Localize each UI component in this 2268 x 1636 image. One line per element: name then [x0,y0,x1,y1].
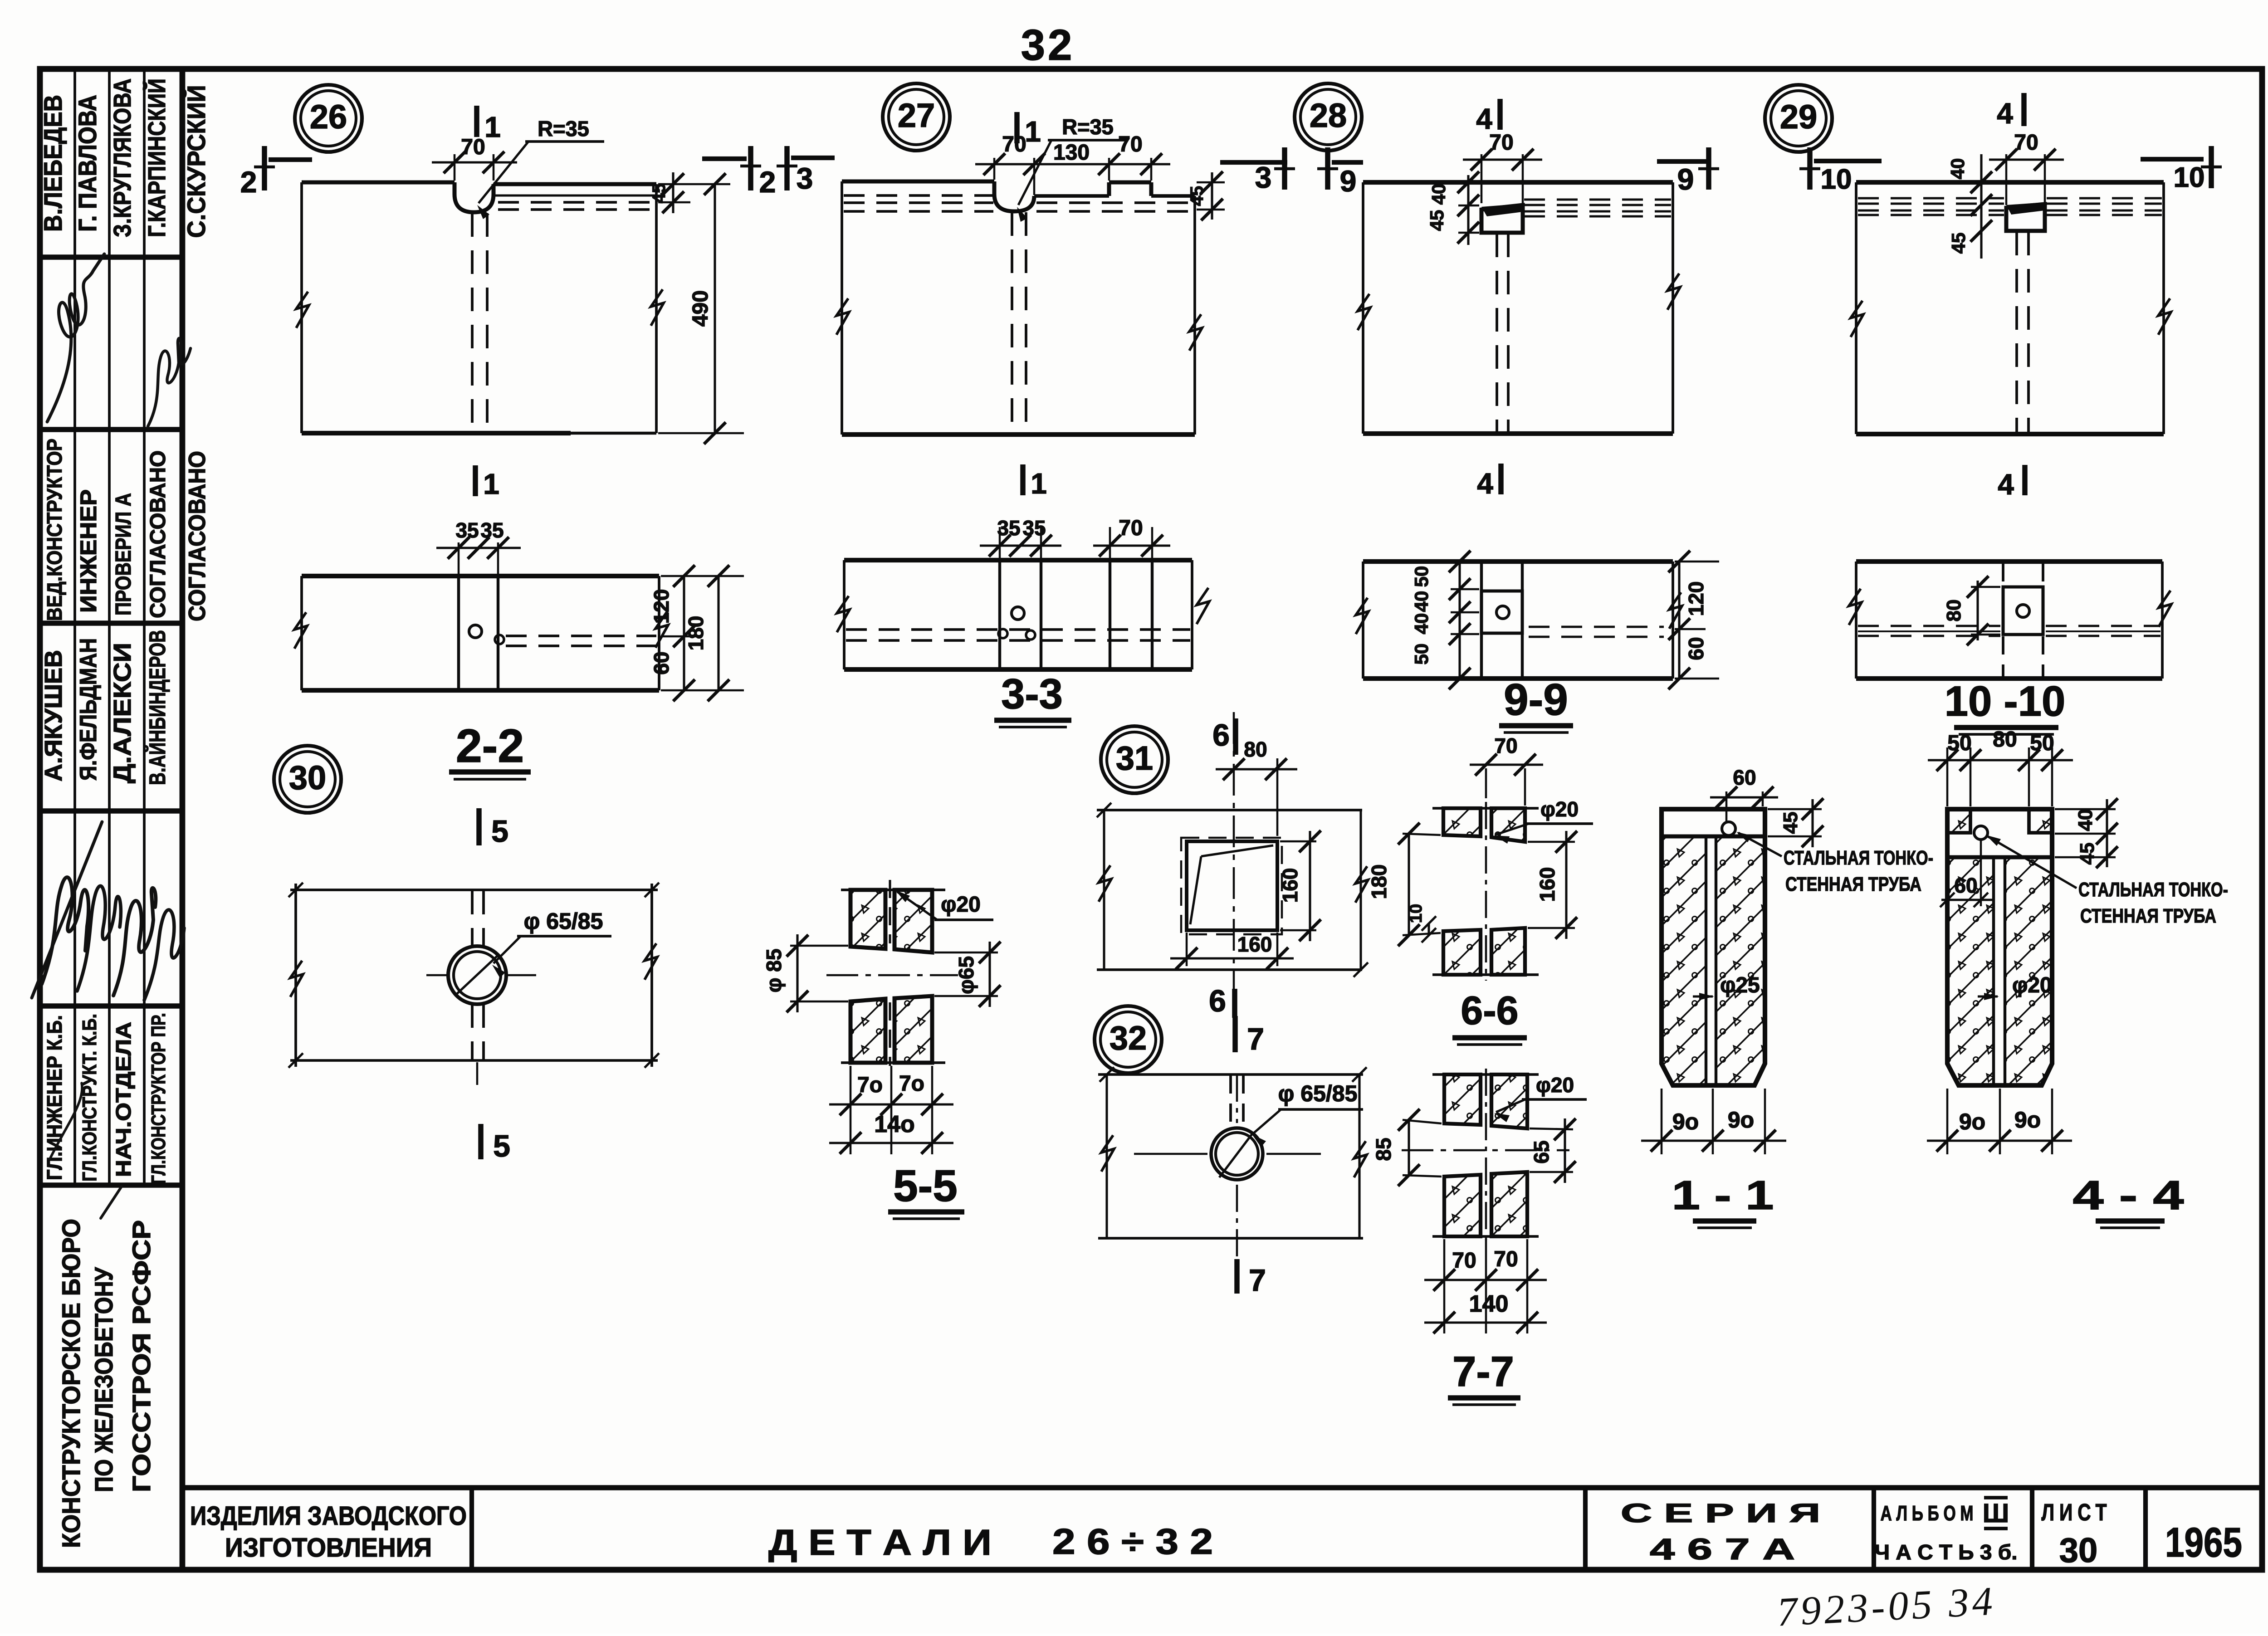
svg-text:Я.ФЕЛЬДМАН: Я.ФЕЛЬДМАН [75,638,102,781]
svg-text:5-5: 5-5 [893,1161,958,1211]
svg-text:120: 120 [650,589,673,624]
svg-text:10: 10 [1821,164,1852,195]
svg-text:4: 4 [1477,467,1493,500]
svg-text:R=35: R=35 [1062,115,1114,139]
svg-text:З.КРУГЛЯКОВА: З.КРУГЛЯКОВА [109,78,136,237]
svg-text:10: 10 [1407,904,1426,923]
svg-text:НАЧ.ОТДЕЛА: НАЧ.ОТДЕЛА [112,1022,135,1177]
svg-text:ПО ЖЕЛЕЗОБЕТОНУ: ПО ЖЕЛЕЗОБЕТОНУ [89,1267,118,1492]
svg-text:Ч А С Т Ь 3 б.: Ч А С Т Ь 3 б. [1875,1540,2018,1564]
svg-text:1: 1 [1031,467,1047,500]
svg-text:СТАЛЬНАЯ ТОНКО-: СТАЛЬНАЯ ТОНКО- [2078,879,2228,901]
svg-text:1965: 1965 [2165,1519,2242,1566]
svg-text:140: 140 [1469,1291,1509,1317]
svg-text:40: 40 [1947,158,1968,180]
svg-text:9o: 9o [1672,1109,1699,1134]
svg-text:40: 40 [1428,184,1449,205]
svg-text:СТЕННАЯ ТРУБА: СТЕННАЯ ТРУБА [2080,905,2216,927]
svg-text:2: 2 [759,165,776,199]
svg-text:СТАЛЬНАЯ ТОНКО-: СТАЛЬНАЯ ТОНКО- [1784,847,1933,869]
svg-text:9o: 9o [1728,1107,1754,1133]
svg-text:СОГЛАСОВАНО: СОГЛАСОВАНО [146,450,170,618]
svg-text:160: 160 [1278,868,1302,903]
svg-text:50: 50 [1411,644,1432,665]
svg-text:2: 2 [240,165,257,199]
svg-text:35: 35 [480,518,503,542]
svg-text:С Е Р И Я: С Е Р И Я [1621,1499,1820,1528]
svg-text:31: 31 [1116,739,1153,777]
svg-text:35: 35 [1022,516,1046,540]
svg-text:7o: 7o [899,1072,924,1096]
svg-text:29: 29 [1780,98,1817,136]
svg-text:1: 1 [484,111,501,143]
svg-text:В.АЙНБИНДЕРОВ: В.АЙНБИНДЕРОВ [144,630,170,785]
svg-text:32: 32 [1110,1019,1147,1057]
svg-text:45: 45 [1948,233,1969,254]
svg-text:1: 1 [483,468,499,500]
svg-text:6-6: 6-6 [1461,988,1518,1033]
svg-text:70: 70 [1494,734,1517,757]
svg-text:130: 130 [1053,141,1090,165]
svg-text:ИЗГОТОВЛЕНИЯ: ИЗГОТОВЛЕНИЯ [225,1533,432,1563]
svg-text:3: 3 [797,161,813,195]
svg-text:С.СКУРСКИЙ: С.СКУРСКИЙ [182,85,210,238]
svg-text:80: 80 [1943,600,1965,622]
svg-text:ВЕД.КОНСТРУКТОР: ВЕД.КОНСТРУКТОР [43,439,66,621]
svg-text:50: 50 [1411,566,1432,587]
svg-text:85: 85 [1372,1138,1395,1161]
svg-text:СТЕННАЯ ТРУБА: СТЕННАЯ ТРУБА [1785,873,1921,895]
svg-text:10: 10 [2174,162,2205,193]
svg-text:3: 3 [1255,161,1272,194]
svg-text:30: 30 [289,759,326,796]
svg-text:180: 180 [1367,864,1391,899]
svg-text:7-7: 7-7 [1452,1348,1514,1395]
svg-text:4: 4 [1998,468,2014,501]
svg-text:45: 45 [2076,843,2098,865]
svg-text:50: 50 [2030,731,2054,755]
svg-text:В.ЛЕБЕДЕВ: В.ЛЕБЕДЕВ [39,95,67,232]
svg-text:70: 70 [1452,1249,1476,1273]
svg-text:6: 6 [1209,984,1226,1018]
svg-text:60: 60 [650,651,673,674]
svg-text:80: 80 [1244,737,1267,761]
svg-text:φ20: φ20 [1540,797,1579,821]
svg-text:490: 490 [689,290,713,327]
svg-text:40: 40 [2074,809,2097,831]
svg-text:70: 70 [1489,131,1513,155]
svg-text:160: 160 [1535,867,1559,902]
svg-text:φ20: φ20 [1536,1073,1574,1097]
svg-text:ИНЖЕНЕР: ИНЖЕНЕР [76,489,101,613]
svg-text:Д Е Т А Л И: Д Е Т А Л И [768,1522,992,1563]
svg-text:Г. ПАВЛОВА: Г. ПАВЛОВА [73,95,102,232]
svg-text:50: 50 [1947,731,1971,755]
svg-text:φ25: φ25 [1720,973,1760,997]
svg-text:ГЛ.КОНСТРУКТОР ПР.: ГЛ.КОНСТРУКТОР ПР. [147,1013,170,1184]
svg-text:КОНСТРУКТОРСКОЕ БЮРО: КОНСТРУКТОРСКОЕ БЮРО [57,1219,85,1548]
svg-text:5: 5 [493,1129,510,1163]
svg-text:φ 85: φ 85 [762,949,786,993]
svg-text:4 - 4: 4 - 4 [2073,1173,2184,1218]
svg-text:4 6 7 А: 4 6 7 А [1650,1532,1795,1566]
svg-text:35: 35 [455,518,479,542]
svg-text:14o: 14o [874,1111,915,1138]
svg-text:ЛИСТ: ЛИСТ [2042,1499,2112,1526]
svg-text:А Л Ь Б О М: А Л Ь Б О М [1881,1501,1974,1525]
svg-text:45: 45 [1187,186,1207,206]
svg-text:60: 60 [1733,766,1756,789]
svg-text:30: 30 [2059,1531,2098,1570]
svg-text:φ20: φ20 [2012,973,2052,997]
svg-text:1: 1 [1025,115,1041,148]
svg-text:27: 27 [898,97,935,134]
svg-text:ИЗДЕЛИЯ ЗАВОДСКОГО: ИЗДЕЛИЯ ЗАВОДСКОГО [190,1501,467,1531]
svg-text:СОГЛАСОВАНО: СОГЛАСОВАНО [184,451,210,621]
svg-text:9: 9 [1340,164,1357,198]
svg-text:45: 45 [1779,812,1802,834]
svg-text:9o: 9o [1959,1109,1985,1134]
svg-text:45: 45 [1426,210,1447,231]
svg-text:70: 70 [2014,131,2038,155]
svg-text:65: 65 [1530,1140,1553,1163]
svg-text:160: 160 [1237,933,1272,956]
svg-text:2-2: 2-2 [456,720,524,772]
svg-text:40: 40 [1411,591,1432,612]
svg-text:70: 70 [461,135,485,159]
svg-text:7: 7 [1249,1263,1266,1298]
svg-text:4: 4 [1997,97,2013,130]
svg-text:40: 40 [1411,613,1432,635]
svg-text:7o: 7o [857,1073,883,1097]
svg-text:3-3: 3-3 [1001,670,1063,718]
svg-text:φ 65/85: φ 65/85 [1278,1081,1358,1106]
svg-text:2 6 ÷ 3 2: 2 6 ÷ 3 2 [1052,1521,1213,1562]
svg-text:Д.АЛЕКСИ: Д.АЛЕКСИ [109,643,136,783]
svg-text:9: 9 [1677,162,1694,196]
svg-text:28: 28 [1310,97,1347,134]
svg-text:Ш: Ш [1983,1499,2009,1528]
svg-text:φ 65/85: φ 65/85 [524,908,603,934]
svg-text:35: 35 [997,516,1020,540]
svg-text:45: 45 [649,183,669,204]
svg-text:А.ЯКУШЕВ: А.ЯКУШЕВ [40,650,67,781]
svg-text:4: 4 [1476,103,1492,135]
svg-text:32: 32 [1021,21,1075,69]
svg-text:Г.КАРПИНСКИЙ: Г.КАРПИНСКИЙ [143,78,171,237]
svg-text:120: 120 [1684,581,1708,616]
svg-text:10 -10: 10 -10 [1945,677,2066,725]
svg-text:26: 26 [310,98,347,136]
svg-text:70: 70 [1002,132,1026,156]
svg-text:60: 60 [1684,637,1708,660]
svg-text:φ20: φ20 [941,893,981,917]
svg-text:ГЛ.ИНЖЕНЕР К.Б.: ГЛ.ИНЖЕНЕР К.Б. [43,1015,66,1180]
svg-text:60: 60 [1954,874,1977,897]
svg-text:5: 5 [491,814,508,849]
svg-text:9-9: 9-9 [1504,674,1568,724]
svg-text:ПРОВЕРИЛ А: ПРОВЕРИЛ А [112,493,136,615]
svg-text:9o: 9o [2014,1107,2041,1133]
svg-text:7: 7 [1247,1022,1264,1056]
svg-text:70: 70 [1119,516,1143,540]
svg-text:ГОССТРОЯ РСФСР: ГОССТРОЯ РСФСР [127,1220,156,1492]
svg-text:R=35: R=35 [538,117,589,141]
svg-text:70: 70 [1118,132,1142,156]
svg-text:1 - 1: 1 - 1 [1672,1173,1774,1218]
svg-text:180: 180 [684,616,708,651]
svg-text:80: 80 [1993,728,2017,752]
svg-text:6: 6 [1212,718,1230,752]
svg-text:70: 70 [1494,1247,1518,1271]
